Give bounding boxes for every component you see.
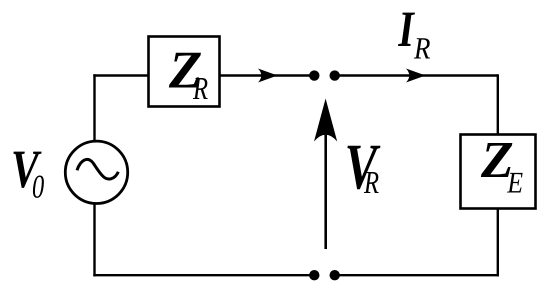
wire: left vertical from source top to top rail: [93, 74, 95, 141]
wire: top rail from right node dot to right corner: [339, 74, 498, 76]
wire: right vertical from top rail to Z_E: [497, 74, 499, 134]
wire: top rail from Z_R to left node dot: [220, 74, 310, 76]
load box Z_E: [461, 135, 536, 209]
wire: top rail from left corner to Z_R box: [93, 74, 148, 76]
sine symbol inside source: [77, 159, 118, 179]
V_R arrowhead: [314, 99, 337, 142]
V_R arrow line: [324, 133, 327, 249]
label V0: [13, 152, 43, 198]
arrowhead I_R on right top wire: [406, 69, 426, 83]
resistor box Z_R: [149, 37, 220, 107]
arrowhead on wire after Z_R: [258, 69, 278, 83]
node dot top-right: [330, 70, 340, 80]
label Z_R: [169, 53, 208, 99]
label I_R: [398, 13, 430, 59]
label V_R: [347, 146, 380, 193]
node dot bottom-right: [330, 270, 340, 280]
wire: right vertical from Z_E to bottom rail: [497, 209, 499, 276]
wire: left vertical from bottom rail to source bottom: [93, 204, 95, 276]
label Z_E: [481, 143, 523, 193]
wire: bottom rail from right corner to right bottom dot: [339, 274, 499, 276]
voltage source V0 circle: [65, 141, 127, 203]
node dot top-left: [309, 70, 319, 80]
wire: bottom rail from left bottom dot to left corner: [93, 274, 310, 276]
node dot bottom-left: [309, 270, 319, 280]
